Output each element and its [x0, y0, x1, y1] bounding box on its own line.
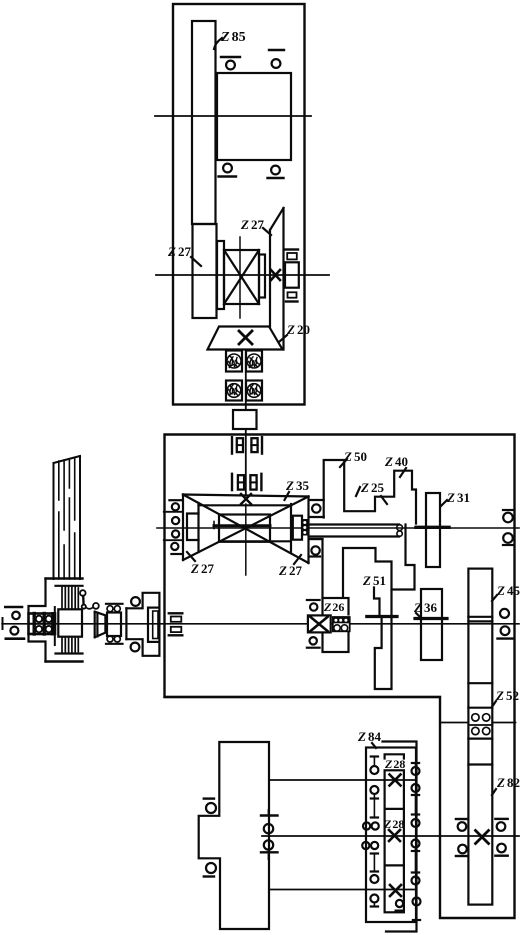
label Z25 — [356, 480, 387, 504]
bearing above X-box — [307, 600, 320, 611]
label Z27 bevel-right — [278, 555, 302, 578]
label Z20 — [279, 322, 310, 342]
svg-text:Z85: Z85 — [220, 30, 246, 45]
bevel gear Z20 (trapezoid) — [208, 327, 283, 350]
label Z84 — [357, 729, 381, 748]
thick bar shaft I right — [416, 526, 449, 529]
worm wheel box 2 — [246, 351, 262, 372]
pulley housing left wall — [29, 579, 46, 662]
svg-text:Z25: Z25 — [360, 480, 384, 495]
hub bracket left — [187, 514, 199, 541]
svg-text:Z84: Z84 — [357, 729, 381, 744]
label Z27 bevel-left — [187, 552, 214, 576]
gear block Z50 Z25 Z40 — [324, 460, 416, 524]
hub left of X-box — [217, 241, 224, 309]
bearing bottom-right of bevel — [310, 539, 323, 557]
shift fork detail — [80, 590, 99, 609]
frame (upper gearbox housing) — [173, 4, 305, 405]
bevel differential assembly outline — [183, 495, 309, 564]
label Z51 — [362, 573, 386, 588]
bearing bottom-left of block — [219, 164, 237, 177]
hub right — [293, 516, 302, 540]
label Z52 — [492, 688, 519, 707]
worm wheel box 1 — [226, 351, 242, 372]
bearing right of X — [495, 819, 507, 856]
label Z31 — [441, 490, 470, 506]
central block of differential — [219, 515, 270, 542]
label Z85 — [214, 30, 246, 49]
sliding gear X-box — [224, 237, 259, 318]
svg-text:Z27: Z27 — [240, 217, 264, 232]
pulley housing bottom flange — [56, 652, 83, 654]
hollow shaft I — [309, 525, 403, 537]
frame bottom edge middle — [165, 696, 441, 698]
shaft I centerline — [157, 527, 519, 529]
nut symbol upper (right of flag) — [285, 250, 298, 260]
bearing left of X — [456, 819, 468, 856]
shaft end box — [285, 262, 299, 287]
clutch X2 — [389, 830, 400, 841]
thrust washers right of wall — [169, 613, 183, 635]
svg-text:Z51: Z51 — [362, 573, 386, 588]
gear column Z45 Z52 Z82 — [468, 569, 492, 905]
centerline shaft of X-box — [156, 274, 329, 276]
pulley housing top flange — [46, 577, 83, 579]
gear Z36 — [421, 589, 442, 660]
worm wheel box 3 — [226, 381, 242, 401]
label Z50 — [340, 449, 367, 467]
shaft line 3 bottom — [269, 889, 416, 891]
label Z82 — [492, 775, 520, 795]
bearing top-right of block — [269, 50, 284, 68]
svg-text:Z20: Z20 — [286, 322, 310, 337]
nut symbol lower — [286, 292, 298, 301]
svg-text:Z26: Z26 — [323, 600, 344, 614]
gear Z26 body — [323, 598, 349, 652]
bearing shaft II right wall — [498, 609, 513, 639]
label Z27 top-right — [240, 217, 271, 235]
input bearing block 2x2 — [29, 614, 56, 635]
bearing below X3 — [396, 900, 404, 911]
vertical centerline through bevel — [245, 504, 247, 575]
bearing below X-box — [307, 637, 320, 648]
worm wheel box 4 — [246, 381, 262, 401]
centerline upper shaft — [155, 115, 311, 117]
gearbox Z84 outer box — [366, 748, 416, 923]
pulley grooves lower — [62, 637, 78, 654]
bevel gear Z27 vertical (flag) — [270, 208, 284, 350]
label Z40 — [384, 454, 408, 477]
bearings left column of Z84 box — [362, 757, 379, 907]
vertical shaft line — [245, 350, 247, 411]
bearing top-left of block — [221, 57, 240, 69]
freewheel rollers in column — [472, 714, 490, 735]
clutch X on vertical shaft — [241, 494, 251, 504]
inner gear column Z28 — [385, 754, 404, 758]
gear Z27 upper-left — [193, 224, 217, 318]
label Z45 — [492, 583, 520, 601]
thrust bearing row 1 — [232, 437, 262, 453]
svg-text:Z52: Z52 — [495, 688, 519, 703]
bearing right of apron upper — [261, 810, 278, 833]
hub right of X-box — [259, 255, 265, 298]
gear Z85 — [192, 21, 216, 224]
splined end detail — [302, 519, 308, 536]
svg-text:Z31: Z31 — [446, 490, 470, 505]
thick bar shaft II at Z51 — [367, 615, 397, 618]
svg-text:Z27: Z27 — [167, 244, 191, 259]
freewheel rollers of Z26 — [333, 616, 350, 632]
svg-text:Z28: Z28 — [383, 817, 404, 831]
overrunning clutch X-box on shaft II — [308, 615, 331, 632]
gear Z31 — [426, 493, 440, 567]
svg-text:Z50: Z50 — [343, 449, 367, 464]
bracket outer second line — [383, 742, 417, 932]
vertical shaft into midbox — [245, 429, 247, 494]
cone clutch frustum — [95, 612, 106, 638]
sleeve from bevel housing to Z26 — [310, 539, 323, 598]
bearing block upper — [217, 73, 291, 160]
coupling box on vertical shaft — [233, 410, 257, 429]
thick bar shaft II at Z36 — [415, 617, 447, 620]
shaft line 1 bottom — [269, 779, 416, 781]
coupling bracket — [126, 593, 159, 656]
label Z27 top-left — [167, 244, 201, 266]
gear Z51 outline — [343, 548, 392, 689]
shaft end bearing far left — [3, 607, 25, 639]
shaft II centerline — [2, 623, 519, 625]
lead shaft line — [262, 835, 519, 837]
clutch X marker in Z20 — [239, 331, 252, 344]
pulley grooves upper — [62, 587, 78, 610]
frame (middle gearbox housing) — [165, 435, 515, 919]
label Z36 — [413, 600, 437, 618]
label Z35 — [285, 478, 310, 500]
clutch X marker on shaft — [271, 270, 280, 280]
bearing top-right of bevel — [309, 500, 324, 517]
svg-text:Z27: Z27 — [190, 561, 214, 576]
cone pulley hub — [55, 607, 82, 645]
clutch X on lead shaft — [476, 831, 489, 844]
shaft stub at rollers — [440, 722, 468, 724]
gear Z40 lower sleeve — [392, 525, 415, 590]
pinion shaft thick bar — [214, 524, 270, 527]
bearing left lower of apron — [204, 863, 216, 877]
clutch X1 — [390, 775, 401, 786]
svg-text:Z28: Z28 — [384, 757, 405, 771]
bearing bottom-right of block — [268, 166, 284, 178]
svg-text:Z40: Z40 — [384, 454, 408, 469]
joint box with pins — [106, 604, 123, 644]
bearings right column of Z84 box — [412, 763, 421, 920]
thrust bearing row 2 — [232, 474, 261, 490]
svg-text:Z82: Z82 — [496, 775, 520, 790]
belt to motor — [54, 456, 81, 579]
bearing right of apron lower — [261, 840, 278, 859]
flange circles — [131, 597, 140, 606]
svg-text:Z27: Z27 — [278, 563, 302, 578]
bearing stack left of bevel — [164, 500, 183, 554]
clutch X3 — [390, 885, 401, 896]
bearing shaft I right wall — [503, 510, 514, 545]
apron block — [199, 742, 269, 929]
bearing left upper of apron — [204, 799, 216, 813]
svg-text:Z45: Z45 — [496, 583, 520, 598]
